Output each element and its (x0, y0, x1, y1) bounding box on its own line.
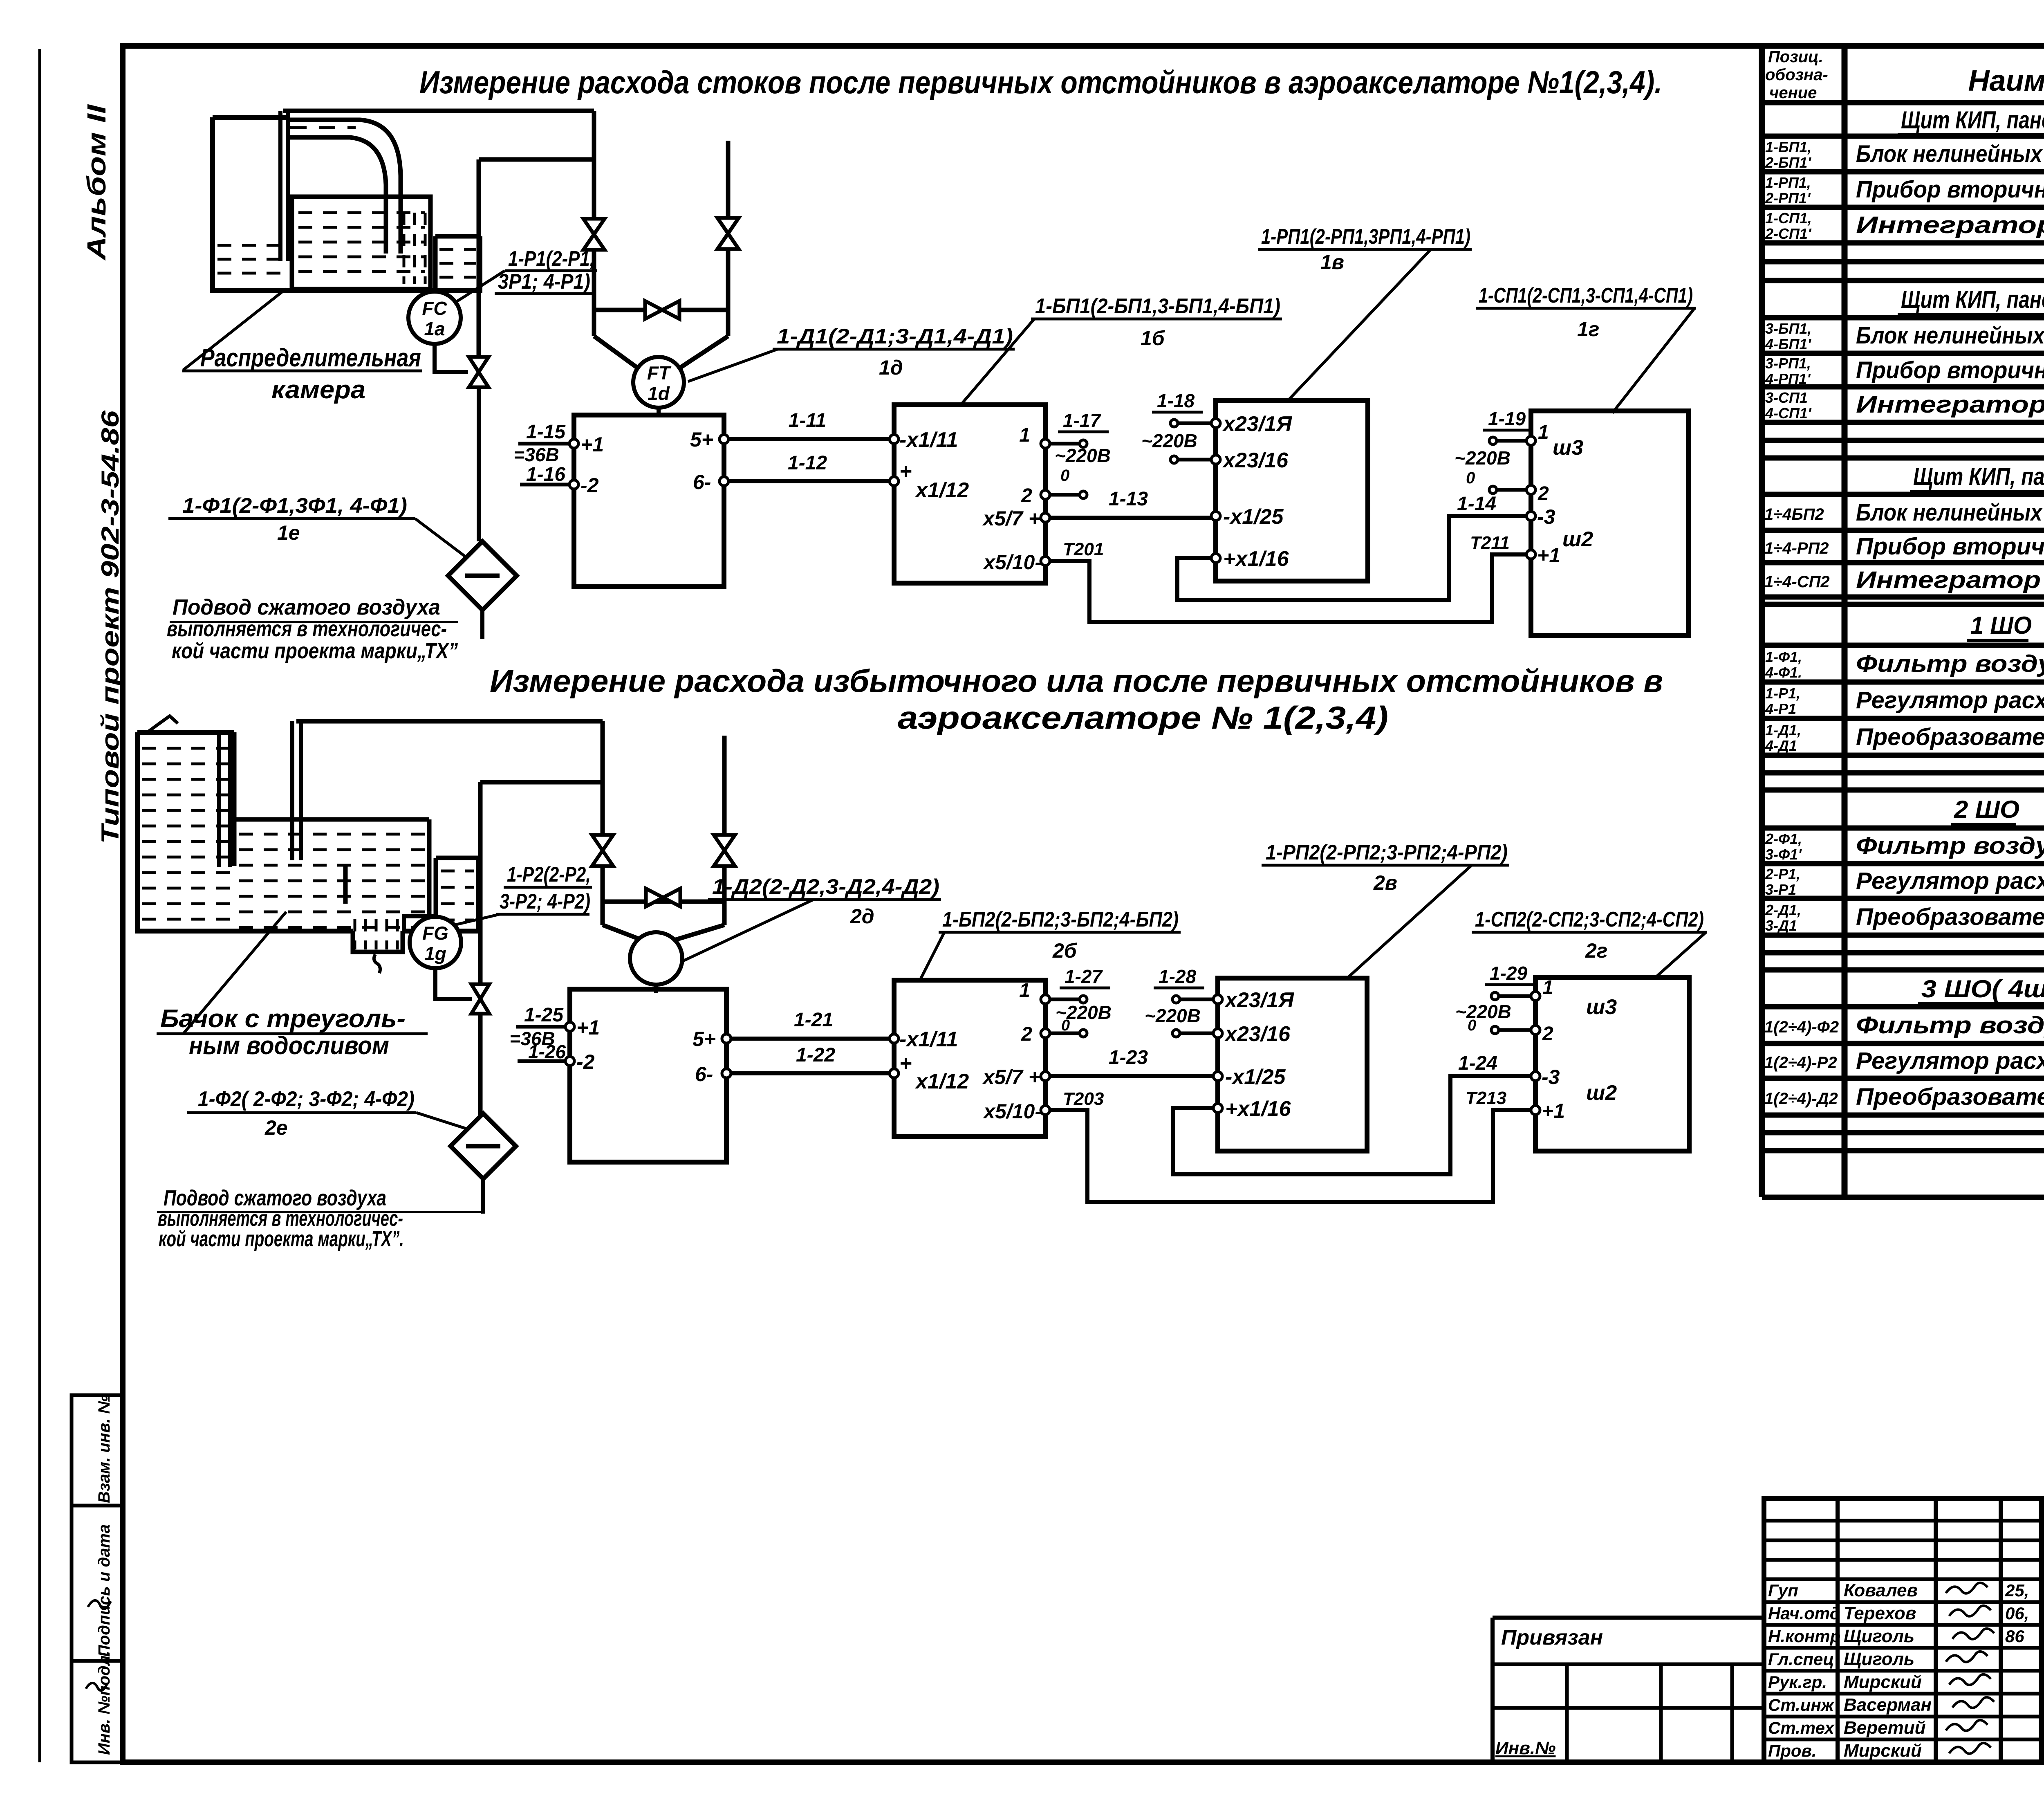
wire 1-12 (728, 452, 893, 481)
sensor circle lower (630, 932, 682, 985)
label T211 (1470, 533, 1510, 553)
leader Д1 (688, 349, 778, 381)
label sh2 lower (1586, 1081, 1617, 1105)
table content (1764, 106, 2044, 1111)
label sh2 upper (1562, 527, 1593, 551)
wire 1-22 (731, 1044, 894, 1073)
terminal 2 sh upper (1526, 483, 1549, 505)
terminal +1 sh lower (1531, 1100, 1565, 1122)
valve on pipe B (717, 218, 739, 249)
svg-text:Интегратор С-1М: Интегратор С-1М (1856, 212, 2044, 238)
svg-text:1-РП1(2-РП1,3РП1,4-РП1): 1-РП1(2-РП1,3РП1,4-РП1) (1261, 225, 1470, 249)
title block texts (2042, 1517, 2044, 1755)
svg-text:5+: 5+ (690, 428, 713, 451)
svg-text:Преобразователь„Сапфир”- 22ДД: Преобразователь„Сапфир”- 22ДД (1856, 904, 2044, 930)
svg-text:1-Ф1(2-Ф1,3Ф1, 4-Ф1): 1-Ф1(2-Ф1,3Ф1, 4-Ф1) (182, 494, 407, 518)
svg-text:1-14: 1-14 (1457, 493, 1496, 515)
leader Р1 (454, 271, 505, 303)
svg-text:2-РП1': 2-РП1' (1765, 190, 1811, 206)
terminal 5+ lower (693, 1028, 731, 1050)
svg-text:камера: камера (271, 376, 365, 404)
block Д2 (Сапфир) lower (570, 989, 726, 1162)
svg-text:кой части проекта марки„ТХ”: кой части проекта марки„ТХ”. (159, 1227, 404, 1251)
wire T213 route (1173, 1076, 1532, 1174)
svg-text:=36В: =36В (513, 444, 559, 465)
pipe below diamond lower (481, 1179, 485, 1214)
svg-text:1 ШО: 1 ШО (1970, 612, 2032, 639)
svg-text:1-24: 1-24 (1458, 1052, 1497, 1074)
svg-text:1-19: 1-19 (1488, 408, 1526, 429)
svg-text:Щиголь: Щиголь (1844, 1626, 1914, 1646)
svg-text:1-Р2(2-Р2,: 1-Р2(2-Р2, (507, 863, 591, 886)
wire 1-16 (520, 464, 570, 485)
label T201 (1063, 539, 1104, 559)
svg-text:Фильтр воздуха ФВ-1,6: Фильтр воздуха ФВ-1,6 (1856, 651, 2044, 677)
svg-text:~220В: ~220В (1055, 445, 1111, 466)
svg-text:0: 0 (1060, 467, 1069, 485)
svg-text:Альбом II: Альбом II (82, 104, 111, 261)
svg-text:1-17: 1-17 (1063, 410, 1101, 431)
svg-text:Гл.спец: Гл.спец (1768, 1649, 1834, 1669)
svg-text:4-БП1': 4-БП1' (1765, 336, 1811, 352)
svg-text:1÷4-СП2: 1÷4-СП2 (1764, 573, 1830, 591)
svg-text:1-СП1,: 1-СП1, (1765, 210, 1812, 227)
terminal -x1/25 upper (1211, 505, 1284, 529)
svg-text:Гуп: Гуп (1768, 1581, 1798, 1600)
svg-text:аэроакселаторе № 1(2,3,4): аэроакселаторе № 1(2,3,4) (898, 700, 1388, 736)
leader Р2 (455, 914, 500, 925)
FC circle (408, 292, 461, 344)
svg-text:Щит КИП, панель 1: Щит КИП, панель 1 (1901, 106, 2044, 134)
privyazan box (1493, 1618, 1764, 1762)
leader СП2 (1656, 932, 1706, 977)
leader БП1 (961, 319, 1034, 404)
svg-text:1: 1 (1019, 424, 1030, 446)
label sh3 upper (1553, 436, 1583, 460)
svg-text:~220В: ~220В (1145, 1005, 1201, 1026)
stamp box Инв.№ подл. (72, 1651, 123, 1762)
svg-text:+1: +1 (1542, 1100, 1565, 1122)
svg-text:1-СП2(2-СП2;3-СП2;4-СП2): 1-СП2(2-СП2;3-СП2;4-СП2) (1475, 908, 1704, 931)
svg-text:Ковалев: Ковалев (1844, 1580, 1918, 1600)
svg-text:2-СП1': 2-СП1' (1765, 225, 1812, 242)
callout Ф2 (187, 1087, 416, 1139)
svg-text:кой части проекта марки„ТХ”: кой части проекта марки„ТХ” (172, 639, 458, 663)
callout СП2 (1472, 908, 1707, 962)
svg-text:5+: 5+ (693, 1028, 716, 1050)
svg-text:1д: 1д (879, 356, 903, 379)
wire 220V-2 upper (1049, 491, 1087, 498)
svg-text:Интегратор С-1М: Интегратор С-1М (1856, 567, 2044, 593)
title lower scheme line1 (490, 663, 1663, 699)
svg-text:FC: FC (422, 298, 447, 319)
svg-text:Преобразователь„ Сапфир”-22ДД: Преобразователь„ Сапфир”-22ДД (1856, 724, 2044, 750)
pipe A2 vertical (601, 721, 605, 925)
callout Р2 (496, 863, 592, 914)
sensor stem lower (654, 985, 658, 993)
svg-text:+x1/16: +x1/16 (1223, 547, 1289, 571)
wire 220V-6 lower (1491, 1026, 1532, 1034)
leader to tank2 (184, 912, 286, 1033)
svg-text:~220В: ~220В (1455, 447, 1511, 469)
svg-text:1(2÷4)-Ф2: 1(2÷4)-Ф2 (1764, 1018, 1839, 1036)
svg-text:Рук.гр.: Рук.гр. (1768, 1672, 1827, 1692)
svg-text:1б: 1б (1141, 327, 1165, 350)
svg-text:1÷4БП2: 1÷4БП2 (1764, 505, 1824, 523)
tank2 outlet pipe (292, 721, 301, 860)
svg-text:1-БП1,: 1-БП1, (1765, 139, 1811, 155)
callout Р1 (495, 247, 597, 294)
svg-text:3-Р1: 3-Р1 (1765, 881, 1796, 898)
svg-text:4-РП1': 4-РП1' (1765, 370, 1811, 387)
svg-text:Блок нелинейных преобразовани: Блок нелинейных преобразованийБНП-04 (1856, 322, 2044, 349)
svg-text:+1: +1 (1537, 544, 1560, 567)
block Д1 (Сапфир) upper (574, 415, 724, 587)
terminal -x1/11 lower (890, 1028, 958, 1051)
leader Ф2 (416, 1113, 466, 1129)
svg-text:Измерение расхода стоков по: Измерение расхода стоков после первичных… (419, 64, 1662, 100)
svg-text:1-РП2(2-РП2;3-РП2;4-РП2): 1-РП2(2-РП2;3-РП2;4-РП2) (1266, 841, 1508, 864)
label T213 (1466, 1088, 1506, 1108)
terminal 2 lower (1021, 1023, 1050, 1045)
svg-text:0: 0 (1061, 1017, 1070, 1034)
svg-text:Подвод сжатого воздуха: Подвод сжатого воздуха (173, 595, 440, 619)
terminal +x1/12 lower (890, 1052, 969, 1093)
svg-text:0: 0 (1468, 1017, 1476, 1034)
svg-text:1-11: 1-11 (789, 410, 827, 431)
svg-text:Привязан: Привязан (1501, 1626, 1603, 1649)
wire 1-13 (1049, 488, 1214, 518)
svg-text:2-Ф1,: 2-Ф1, (1765, 830, 1802, 847)
svg-text:Щит КИП, панель 3: Щит КИП, панель 3 (1913, 463, 2044, 490)
leader СП1 (1612, 308, 1694, 413)
leader Ф1 (415, 518, 467, 558)
svg-text:Щиголь: Щиголь (1844, 1649, 1914, 1669)
callout СП1 (1476, 284, 1696, 341)
svg-text:1-27: 1-27 (1065, 966, 1103, 987)
label 1-17 (1055, 410, 1111, 485)
wire 1-26 (518, 1041, 566, 1062)
svg-text:2д: 2д (850, 905, 874, 928)
terminal 6- lower (695, 1063, 731, 1086)
filter diamond upper (448, 541, 517, 610)
svg-text:3-СП1: 3-СП1 (1765, 389, 1808, 406)
valve on connector (645, 301, 679, 319)
wire 220V-1 lower (1049, 996, 1087, 1003)
terminal x5/7 lower (982, 1066, 1050, 1088)
wire 220V-3 upper (1170, 420, 1213, 427)
label 1-28 (1145, 966, 1204, 1026)
tank1 FC stub (428, 262, 433, 292)
terminal x5/7 upper (982, 507, 1050, 530)
svg-text:3 ШО( 4шо ÷ 6 шо): 3 ШО( 4шо ÷ 6 шо) (1921, 975, 2044, 1003)
label 1-27 (1056, 966, 1112, 1034)
svg-text:1е: 1е (277, 521, 300, 544)
svg-text:~220В: ~220В (1455, 1001, 1511, 1022)
terminal 2 upper (1021, 485, 1050, 507)
pocket pipe (478, 782, 483, 1120)
terminal 2 sh lower (1531, 1023, 1553, 1045)
FC to valve pipe (435, 344, 479, 541)
svg-text:25,: 25, (2005, 1581, 2029, 1600)
svg-text:3-Ф1': 3-Ф1' (1765, 846, 1802, 863)
svg-text:1÷4-РП2: 1÷4-РП2 (1764, 539, 1829, 557)
pipe B vertical (726, 141, 731, 336)
terminal +x1/12 upper (890, 460, 969, 502)
svg-text:2г: 2г (1585, 939, 1608, 962)
svg-text:FG: FG (422, 922, 448, 944)
wire 220V-5 upper (1489, 437, 1527, 444)
svg-text:x23/1Я: x23/1Я (1224, 988, 1294, 1012)
title block grid (2042, 1499, 2044, 1762)
block РП1 upper (1216, 401, 1368, 581)
svg-text:1-Р1(2-Р1,: 1-Р1(2-Р1, (508, 247, 595, 271)
svg-text:1(2÷4)-Д2: 1(2÷4)-Д2 (1764, 1090, 1838, 1108)
spec table grid (1762, 46, 2044, 1197)
terminal 5+ upper (690, 428, 728, 451)
wire 1-21 (731, 1009, 894, 1039)
table header texts (1765, 48, 2044, 102)
label 1-29 (1455, 963, 1533, 1034)
svg-text:2-БП1': 2-БП1' (1765, 154, 1811, 171)
svg-text:2: 2 (1542, 1023, 1553, 1045)
svg-text:Фильтр воздуха ФВ-1,6: Фильтр воздуха ФВ-1,6 (1856, 1012, 2044, 1039)
svg-text:1-Д2(2-Д2,3-Д2,4-Д2): 1-Д2(2-Д2,3-Д2,4-Д2) (712, 875, 939, 899)
label T203 (1063, 1089, 1104, 1109)
note compressed air lower (157, 1186, 481, 1251)
svg-text:ш2: ш2 (1562, 527, 1593, 551)
block БП1 upper (894, 405, 1045, 583)
svg-text:Прибор вторичный РП-160-08: Прибор вторичный РП-160-08 (1856, 357, 2044, 384)
svg-text:Измерение расхода избыточног: Измерение расхода избыточного ила после … (490, 663, 1663, 699)
svg-text:FT: FT (647, 362, 672, 384)
callout Ф1 (168, 494, 415, 544)
terminal -2 upper (569, 474, 599, 497)
svg-text:+1: +1 (580, 433, 604, 456)
label Распределительная камера (182, 344, 422, 404)
terminal -3 lower (1531, 1066, 1560, 1088)
svg-text:x1/12: x1/12 (914, 1070, 969, 1093)
svg-text:Ст.инж: Ст.инж (1768, 1695, 1835, 1715)
svg-text:1-СП1(2-СП1,3-СП1,4-СП1): 1-СП1(2-СП1,3-СП1,4-СП1) (1479, 284, 1693, 307)
svg-text:+: + (899, 1052, 912, 1075)
pipe B2 vertical (722, 736, 727, 925)
label 1-19 (1455, 408, 1531, 487)
terminal 1 lower (1019, 980, 1050, 1004)
svg-text:1d: 1d (648, 383, 670, 404)
terminal x23/16 upper (1211, 449, 1289, 472)
svg-text:1-13: 1-13 (1109, 488, 1148, 510)
svg-text:2: 2 (1021, 1023, 1032, 1045)
callout РП1 (1258, 225, 1472, 274)
svg-text:-x1/11: -x1/11 (899, 428, 958, 452)
terminal 6- upper (693, 471, 728, 494)
svg-text:1: 1 (1538, 422, 1549, 443)
svg-text:Инв.№: Инв.№ (1495, 1738, 1555, 1758)
svg-text:1-Р1,: 1-Р1, (1765, 685, 1800, 702)
leader to tank1 (183, 289, 286, 370)
terminal x23/1R upper (1211, 412, 1292, 436)
terminal -3 upper (1526, 505, 1555, 528)
svg-text:1-29: 1-29 (1490, 963, 1527, 984)
svg-text:ш3: ш3 (1553, 436, 1583, 460)
pipe A vertical (592, 111, 596, 336)
valve below FG (471, 984, 489, 1014)
svg-text:x5/10-: x5/10- (982, 551, 1042, 574)
svg-text:-3: -3 (1537, 505, 1555, 528)
FT circle (633, 357, 684, 408)
svg-text:1-25: 1-25 (524, 1004, 564, 1026)
svg-text:x5/7 +: x5/7 + (982, 1066, 1040, 1088)
pocket pipe link (480, 780, 603, 785)
terminal x5/10 lower (982, 1100, 1050, 1123)
leader Д2 (683, 900, 814, 961)
stamp box Взам.инв.№ (72, 1395, 123, 1506)
svg-text:Преобразователь„Сапфир”-22ДД: Преобразователь„Сапфир”-22ДД (1856, 1084, 2044, 1110)
terminal x23/1R lower (1213, 988, 1294, 1012)
svg-text:2б: 2б (1052, 939, 1078, 962)
svg-text:Блок нелинейных преобразований: Блок нелинейных преобразований БНП-04 (1856, 141, 2044, 167)
svg-text:6-: 6- (695, 1063, 713, 1086)
svg-text:1g: 1g (424, 943, 446, 964)
svg-text:x23/16: x23/16 (1222, 449, 1289, 472)
leader БП2 (921, 932, 944, 979)
svg-text:1(2÷4)-Р2: 1(2÷4)-Р2 (1764, 1054, 1837, 1072)
svg-text:Т201: Т201 (1063, 539, 1104, 559)
terminal +1 sh upper (1526, 544, 1560, 567)
svg-text:чение: чение (1769, 84, 1817, 102)
svg-text:Мирский: Мирский (1844, 1741, 1922, 1761)
svg-text:Пров.: Пров. (1768, 1741, 1817, 1760)
leader РП1 (1289, 249, 1431, 400)
svg-text:Фильтр воздуха ФВ-1,6: Фильтр воздуха ФВ-1,6 (1856, 833, 2044, 859)
svg-text:4-Р1: 4-Р1 (1765, 700, 1796, 717)
svg-text:Ст.тех: Ст.тех (1768, 1718, 1835, 1737)
svg-text:Блок нелинейных преобразований: Блок нелинейных преобразований БНП-04 (1856, 499, 2044, 526)
svg-text:-x1/11: -x1/11 (899, 1028, 958, 1051)
svg-text:x5/7 +: x5/7 + (982, 507, 1040, 530)
label 1-18 (1141, 390, 1203, 451)
wire 1-11 (728, 410, 893, 439)
valve on pipe A (583, 219, 605, 250)
terminal 1 upper (1019, 424, 1050, 448)
svg-text:3-РП1,: 3-РП1, (1765, 355, 1811, 372)
svg-text:3-Р2; 4-Р2): 3-Р2; 4-Р2) (500, 890, 590, 913)
svg-text:Регулятор расхода воздуха РРВ: Регулятор расхода воздуха РРВ-1 (1856, 687, 2044, 714)
svg-text:x1/12: x1/12 (914, 478, 969, 502)
svg-text:Типовой проект 902-3-54.86: Типовой проект 902-3-54.86 (96, 410, 124, 844)
terminal +x1/16 upper (1211, 547, 1289, 571)
svg-text:4-Ф1.: 4-Ф1. (1765, 664, 1802, 681)
margin text Альбом II (82, 104, 111, 261)
wire 1-25 (509, 1004, 566, 1049)
valve on connector lower (646, 889, 680, 907)
wire 220V-5 lower (1491, 992, 1532, 1000)
terminal +1 upper (569, 433, 604, 456)
svg-text:1-Ф2( 2-Ф2; 3-Ф2; 4-Ф2): 1-Ф2( 2-Ф2; 3-Ф2; 4-Ф2) (198, 1087, 415, 1111)
svg-text:2 ШО: 2 ШО (1954, 796, 2019, 823)
svg-text:1: 1 (1019, 980, 1030, 1001)
svg-text:+: + (899, 460, 912, 483)
svg-text:2-Д1,: 2-Д1, (1765, 902, 1801, 918)
svg-text:Инв. №подл.: Инв. №подл. (95, 1651, 113, 1755)
leader РП2 (1349, 865, 1472, 976)
svg-text:Позиц.: Позиц. (1768, 48, 1823, 66)
wire 220V-4 lower (1172, 1030, 1215, 1037)
svg-text:2: 2 (1021, 485, 1032, 507)
svg-text:06,: 06, (2005, 1604, 2029, 1623)
svg-text:1-РП1,: 1-РП1, (1765, 174, 1811, 191)
svg-text:1-23: 1-23 (1109, 1047, 1148, 1068)
svg-text:Терехов: Терехов (1844, 1603, 1916, 1623)
svg-text:1-12: 1-12 (788, 452, 827, 474)
wire 1-15 (513, 421, 570, 465)
pipe below diamond (480, 610, 484, 639)
svg-text:1-15: 1-15 (526, 421, 566, 443)
pocket pipe upper (477, 159, 481, 357)
svg-text:Т213: Т213 (1466, 1088, 1506, 1108)
svg-text:ш3: ш3 (1586, 995, 1617, 1019)
FG tap (404, 916, 435, 931)
svg-text:обозна-: обозна- (1765, 66, 1828, 84)
svg-text:1a: 1a (424, 318, 445, 339)
svg-text:2-Р1,: 2-Р1, (1765, 866, 1800, 882)
svg-text:+x1/16: +x1/16 (1225, 1097, 1291, 1121)
svg-text:1-28: 1-28 (1159, 966, 1196, 987)
svg-text:Прибор вторичный РП-160-08: Прибор вторичный РП-160-08 (1856, 176, 2044, 203)
svg-text:Щит КИП, панель 2: Щит КИП, панель 2 (1901, 286, 2044, 313)
svg-text:3Р1; 4-Р1): 3Р1; 4-Р1) (498, 270, 590, 294)
wire T211 route (1177, 516, 1527, 600)
svg-text:6-: 6- (693, 471, 711, 494)
pocket pipe link upper (479, 157, 594, 162)
svg-text:-x1/25: -x1/25 (1223, 505, 1284, 529)
svg-text:+1: +1 (576, 1016, 600, 1039)
note compressed air upper (167, 595, 458, 663)
svg-text:4-СП1': 4-СП1' (1765, 405, 1812, 422)
svg-text:x23/1Я: x23/1Я (1222, 412, 1292, 436)
wire 220V-1 upper (1049, 440, 1087, 447)
margin text Типовой проект (96, 410, 124, 844)
terminal 1 sh upper (1526, 422, 1549, 445)
svg-text:2в: 2в (1373, 871, 1397, 894)
pipe connector lower (603, 900, 724, 904)
svg-text:Интегратор С-1М: Интегратор С-1М (1856, 391, 2044, 418)
svg-text:Наименование: Наименование (1968, 65, 2044, 97)
svg-text:Прибор вторичный РП-160-08: Прибор вторичный РП-160-08 (1856, 533, 2044, 560)
callout Д2 (708, 875, 941, 928)
svg-text:Веретий: Веретий (1844, 1718, 1926, 1738)
terminal -2 lower (565, 1050, 595, 1073)
wire T203 route (1049, 1110, 1532, 1202)
svg-text:Регулятор расхода воздуха Р: Регулятор расхода воздуха РРВ-1 (1856, 1048, 2044, 1074)
terminal +1 lower (565, 1016, 600, 1039)
callout БП1 (1031, 294, 1282, 350)
terminal x5/10 upper (982, 551, 1050, 574)
pipe wire top (283, 109, 594, 113)
paper edge line (38, 49, 41, 1762)
svg-text:1-26: 1-26 (528, 1041, 566, 1062)
block Ш lower (1535, 977, 1689, 1151)
label sh3 lower (1586, 995, 1617, 1019)
svg-text:-3: -3 (1542, 1066, 1560, 1088)
svg-text:1-БП1(2-БП1,3-БП1,4-БП1): 1-БП1(2-БП1,3-БП1,4-БП1) (1035, 294, 1280, 318)
svg-text:1-21: 1-21 (794, 1009, 833, 1031)
label 1-14 (1457, 493, 1496, 515)
margin signature squiggles (86, 1600, 111, 1690)
valve below FC (469, 357, 489, 387)
wire T201 route (1049, 554, 1527, 622)
